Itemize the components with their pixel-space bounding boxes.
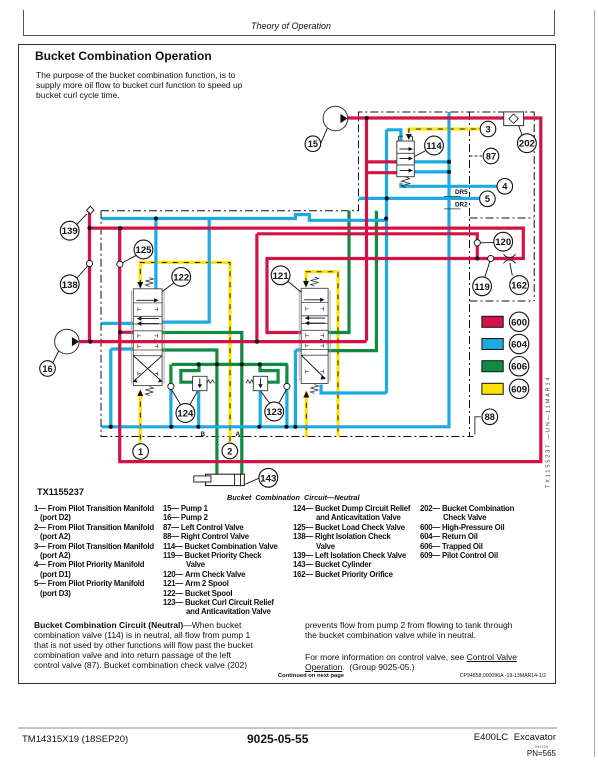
svg-text:600: 600 bbox=[511, 317, 527, 328]
svg-text:TX1155237 —UN—11MAR14: TX1155237 —UN—11MAR14 bbox=[546, 376, 552, 488]
svg-text:138: 138 bbox=[62, 280, 79, 291]
svg-text:DR5: DR5 bbox=[455, 189, 468, 196]
svg-text:125: 125 bbox=[135, 245, 152, 256]
svg-text:15: 15 bbox=[308, 139, 318, 149]
svg-text:16: 16 bbox=[42, 364, 52, 374]
svg-text:119: 119 bbox=[474, 282, 489, 293]
svg-text:5: 5 bbox=[485, 194, 490, 204]
svg-text:3: 3 bbox=[485, 124, 490, 134]
svg-text:609: 609 bbox=[511, 384, 527, 395]
svg-text:162: 162 bbox=[511, 281, 527, 292]
svg-text:202: 202 bbox=[519, 139, 535, 150]
svg-text:B: B bbox=[201, 431, 206, 438]
svg-text:122: 122 bbox=[173, 272, 189, 283]
svg-text:A: A bbox=[236, 431, 241, 438]
svg-text:123: 123 bbox=[266, 407, 282, 418]
svg-text:4: 4 bbox=[502, 182, 508, 192]
svg-text:124: 124 bbox=[177, 408, 194, 419]
svg-text:143: 143 bbox=[260, 473, 276, 484]
svg-text:2: 2 bbox=[227, 446, 232, 456]
svg-text:120: 120 bbox=[495, 237, 511, 248]
svg-text:88: 88 bbox=[485, 412, 495, 422]
svg-text:87: 87 bbox=[486, 151, 496, 161]
svg-text:139: 139 bbox=[62, 226, 78, 237]
svg-text:606: 606 bbox=[511, 362, 527, 373]
svg-text:DR2: DR2 bbox=[455, 202, 468, 209]
svg-text:114: 114 bbox=[426, 141, 442, 152]
svg-text:604: 604 bbox=[511, 339, 528, 350]
svg-text:1: 1 bbox=[138, 447, 143, 457]
svg-text:121: 121 bbox=[273, 271, 290, 282]
